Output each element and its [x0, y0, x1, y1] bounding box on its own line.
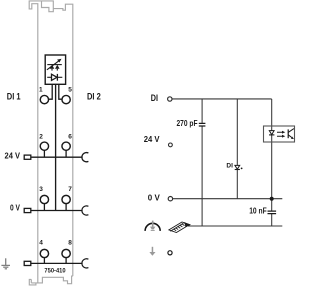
optocoupler U2 box — [264, 126, 295, 142]
rail earth symbol (dome with arrow) — [145, 223, 160, 231]
icon: diode bar — [56, 74, 58, 81]
optocoupler branch wire — [271, 99, 273, 226]
DI wire — [172, 98, 272, 100]
opto phototransistor — [287, 129, 289, 138]
svg-text:270 pF: 270 pF — [177, 118, 198, 128]
svg-text:4: 4 — [39, 240, 43, 247]
svg-text:0 V: 0 V — [148, 193, 161, 202]
opto LED — [269, 131, 274, 135]
icon: diode triangle — [52, 74, 58, 80]
aux terminal circle — [168, 251, 172, 255]
module outline left edge + top-left hook — [29, 1, 53, 283]
diode D1 — [235, 165, 240, 169]
icon: triangle 1 — [50, 65, 55, 69]
icon: diagonal arrow — [47, 61, 59, 70]
shield rail wire — [188, 225, 282, 227]
terminal rect 0V — [24, 208, 31, 212]
earth row wire — [31, 262, 83, 264]
junction node — [270, 197, 274, 201]
svg-text:750-410: 750-410 — [44, 267, 66, 274]
24V jumper contact hook — [82, 153, 88, 162]
0V terminal circle right — [168, 197, 172, 201]
svg-text:5: 5 — [68, 87, 72, 94]
DI terminal circle — [168, 97, 172, 101]
0V jumper contact hook — [82, 206, 88, 215]
svg-text:DI 1: DI 1 — [7, 91, 21, 102]
svg-text:DI 2: DI 2 — [87, 91, 101, 102]
svg-text:DI: DI — [226, 162, 233, 169]
wire leg right from box to terminal 5 — [59, 84, 62, 99]
svg-text:1: 1 — [39, 87, 43, 94]
24V row wire — [31, 156, 83, 158]
earth jumper contact hook — [82, 259, 88, 268]
0V rail wire — [173, 198, 283, 200]
terminal rect earth — [24, 261, 31, 265]
svg-text:0 V: 0 V — [10, 203, 21, 212]
svg-text:3: 3 — [39, 186, 43, 193]
icon: triangle 2 — [55, 65, 60, 69]
icon: diode line — [47, 76, 62, 78]
module top step + right edge — [53, 4, 73, 276]
zener branch wire — [236, 99, 238, 199]
0V row wire — [31, 210, 83, 212]
svg-text:24 V: 24 V — [5, 151, 21, 160]
wire leg left from box to terminal 1 — [49, 84, 53, 99]
module bottom profile — [31, 276, 73, 284]
icon: suppressor line — [47, 64, 62, 66]
svg-text:2: 2 — [39, 133, 43, 140]
svg-text:7: 7 — [68, 186, 72, 193]
down arrow symbol — [149, 247, 155, 256]
function box U1 — [45, 55, 65, 84]
24V terminal circle right — [169, 143, 173, 147]
svg-text:24 V: 24 V — [144, 135, 160, 144]
module bottom latch — [29, 279, 36, 285]
svg-text:6: 6 — [68, 133, 72, 140]
270pF branch wire — [201, 99, 203, 226]
terminal rect 24V — [24, 155, 31, 159]
wire center bus from box to 0V row — [55, 84, 57, 210]
earth symbol — [1, 258, 10, 269]
shield clamp symbol — [169, 222, 190, 233]
svg-text:8: 8 — [68, 240, 72, 247]
opto light arrows — [277, 132, 283, 136]
svg-text:10 nF: 10 nF — [249, 205, 267, 215]
svg-text:DI: DI — [151, 93, 158, 104]
